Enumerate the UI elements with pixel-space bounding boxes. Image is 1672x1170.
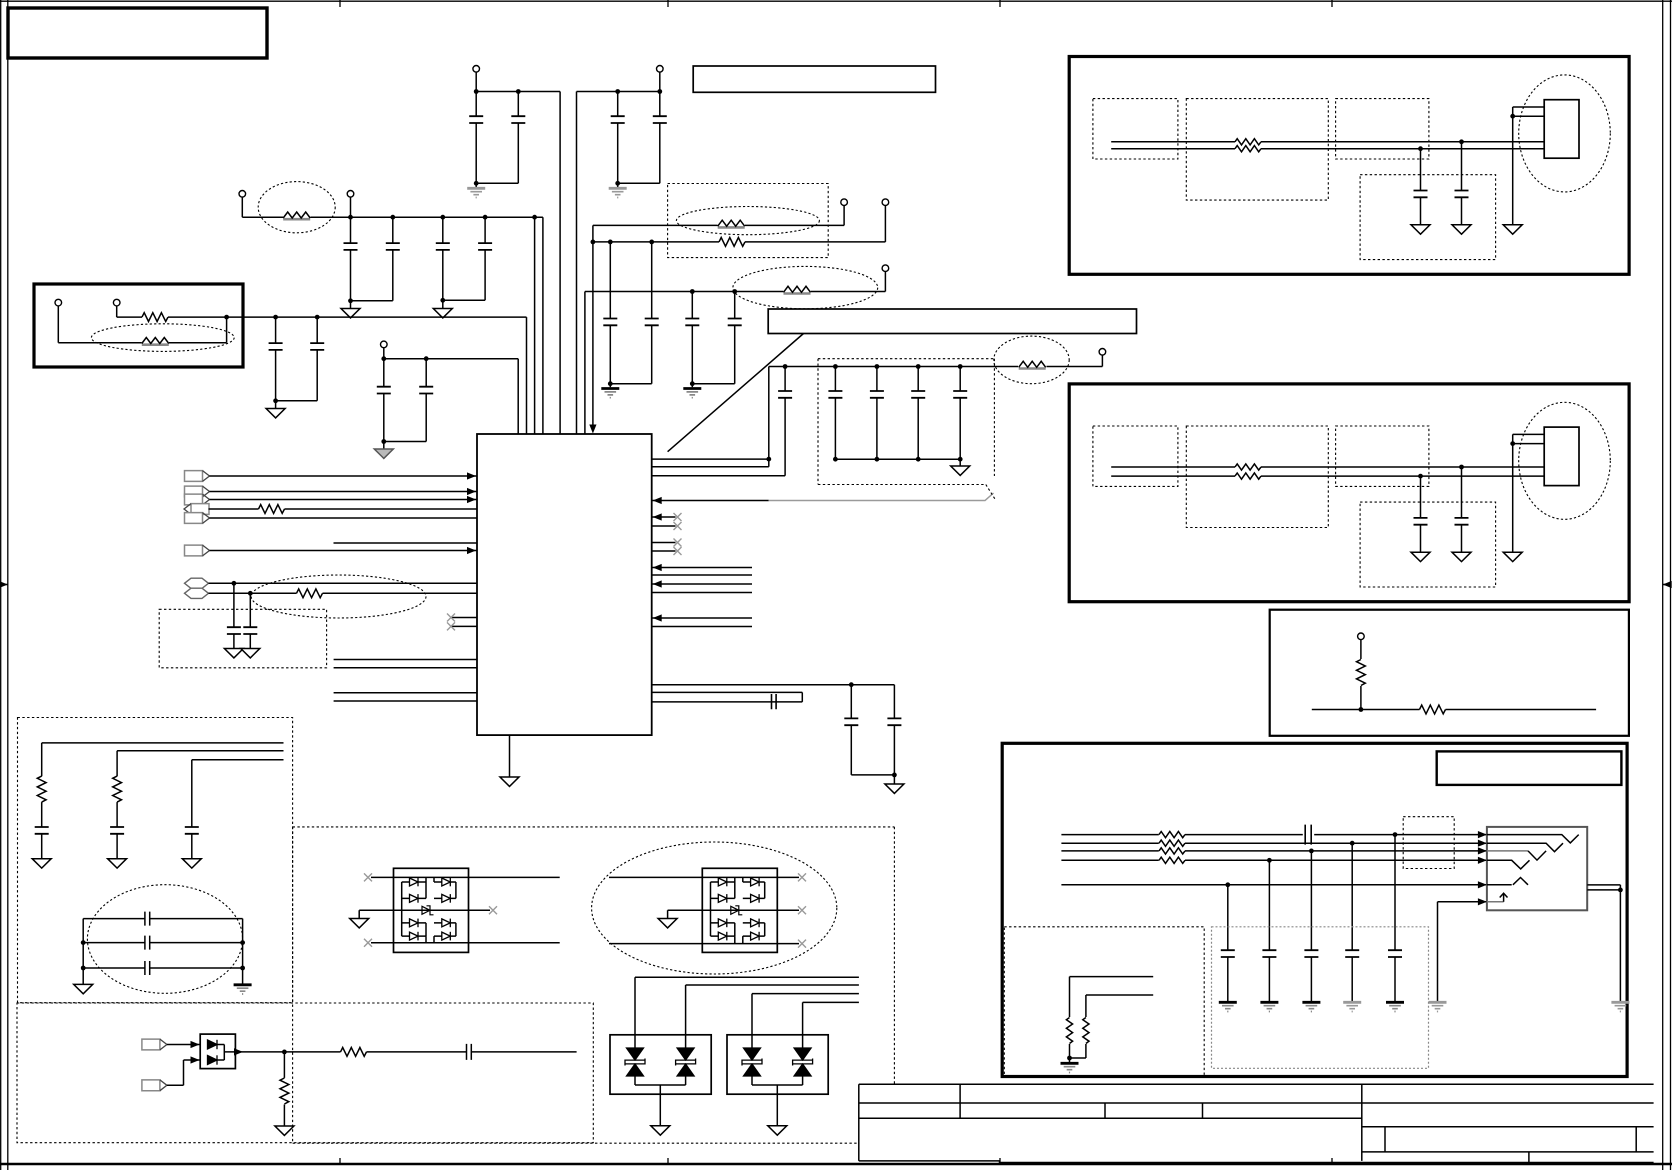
ground triangle B1g1 — [1452, 225, 1471, 234]
ground triangle bus left — [74, 984, 93, 993]
ground triangle C24C25 — [885, 775, 904, 794]
node C9 bottom — [273, 398, 278, 403]
TVS box Z1 — [610, 1035, 711, 1094]
ground earth C31 — [1260, 1002, 1278, 1011]
capacitor C17 — [227, 583, 241, 648]
terminal P6 — [841, 199, 848, 226]
capacitor C30 — [1304, 851, 1318, 1001]
terminal T2 — [113, 299, 120, 317]
capacitor C8 — [443, 217, 492, 300]
label box (net name) — [693, 66, 935, 92]
diff pair loop — [652, 692, 803, 702]
node divider — [1067, 1056, 1072, 1061]
shield box (bold) — [34, 284, 243, 367]
node row5 b — [424, 356, 429, 361]
wire row4 — [227, 316, 527, 318]
node row684 a — [849, 682, 854, 687]
node shield B2 — [1510, 441, 1515, 446]
U1 right rows 459/466 — [652, 367, 769, 467]
dashed box B2c — [1336, 426, 1429, 486]
ESD diode array D1 — [394, 868, 469, 952]
TVS Z2b — [793, 1048, 813, 1085]
node row366 c2 — [916, 364, 921, 369]
node B2 n2 — [1418, 474, 1423, 479]
dashed box B2d — [1360, 502, 1496, 587]
shield stub B2 — [1513, 434, 1545, 552]
ground triangle C17 — [224, 649, 243, 658]
output block (bold) — [1002, 743, 1627, 1076]
node B1 n2 — [1418, 146, 1423, 151]
node rail c3 — [958, 457, 963, 462]
node C25 bottom — [892, 773, 897, 778]
net flag F10 — [142, 1056, 200, 1090]
resistor pair B2 — [1235, 464, 1261, 470]
U1 right rows 567-592 — [652, 564, 752, 593]
connector ellipse B1 — [1519, 75, 1611, 192]
resistor R16 (vertical) — [280, 1052, 289, 1126]
bidir flag F7 — [185, 578, 478, 588]
capacitor C34 — [110, 827, 124, 859]
dashed box BR left — [1004, 927, 1204, 1077]
label box BR — [1437, 751, 1622, 785]
dashed box B2a — [1093, 426, 1178, 486]
node row3 b — [390, 215, 395, 220]
node row3 d — [483, 215, 488, 220]
resistor R5 (vertical) — [1357, 660, 1366, 710]
resistor R9 — [1159, 848, 1185, 854]
dashed box B2b — [1186, 426, 1328, 528]
net flag F2 — [185, 486, 478, 497]
ground earth C28 — [1386, 1002, 1404, 1011]
ferrite bead FB1 ellipse — [258, 182, 335, 233]
nc stub rows left — [447, 614, 477, 631]
node C13 bottom — [608, 381, 613, 386]
capacitor C16 — [692, 292, 741, 384]
TVS Z2 ground — [752, 1085, 803, 1135]
signal pair wires B1 — [1111, 142, 1544, 149]
node C1 bottom — [474, 181, 479, 186]
left bus — [82, 919, 84, 985]
node C30 top — [1309, 849, 1314, 854]
ESD ellipse 2 — [592, 842, 837, 974]
U1 right rows 618/626 — [652, 614, 752, 626]
U2 output pair — [1587, 885, 1620, 1001]
ground earth divider — [1061, 1058, 1079, 1073]
net flag F4 (left) + resistor R3 — [184, 504, 477, 515]
wire bank2 top rail — [577, 91, 660, 93]
diode pack D3 — [200, 1034, 235, 1069]
resistor R2 row — [593, 238, 886, 247]
wire rows 692/701 left — [334, 693, 477, 701]
ferrite bead FB5 — [1019, 361, 1046, 368]
capacitor C7 — [436, 217, 450, 300]
dashed box B1a — [1093, 99, 1178, 159]
wire + resistor R6 — [1312, 705, 1596, 714]
node R5 bottom — [1359, 707, 1364, 712]
ground earth bank2 — [609, 183, 627, 197]
node C5 bottom — [348, 298, 353, 303]
resistor R13 (vertical) — [37, 776, 46, 827]
capacitor C5 — [344, 217, 358, 301]
bus arrow into U1 — [589, 425, 596, 434]
wire rows 659/667 — [334, 660, 477, 668]
bus wires into U1 top — [518, 92, 593, 435]
node cap col a — [608, 240, 613, 245]
TVS box Z2 — [727, 1035, 828, 1094]
bus label box — [768, 309, 1136, 334]
U2 input arrows — [1478, 831, 1487, 838]
capacitor C31 — [1262, 860, 1276, 1001]
node row366 c3 — [958, 364, 963, 369]
U1 right nc stubs — [652, 513, 682, 555]
series capacitor C36 — [83, 912, 242, 926]
terminal P9 — [1099, 349, 1106, 356]
series capacitor C26 — [772, 694, 777, 709]
supply terminal P1 — [473, 66, 480, 92]
wire row5 — [384, 358, 518, 360]
capacitor C11 — [377, 359, 391, 442]
ground triangle C33 — [32, 859, 51, 868]
bidir flag F8 — [185, 588, 478, 598]
bypass dashed box right — [818, 359, 996, 500]
capacitor C23 — [953, 367, 967, 460]
ground triangle B2g2 — [1411, 552, 1430, 561]
ferrite bead FB4 row — [585, 272, 886, 294]
filter dashed box — [668, 184, 829, 258]
node C28 top — [1393, 832, 1398, 837]
node C3 top — [615, 89, 620, 94]
node R2 in — [591, 240, 596, 245]
right bus — [242, 919, 244, 984]
node row-b b — [732, 289, 737, 294]
TVS Z1b — [676, 1048, 696, 1085]
ground earth C32 — [1219, 1002, 1237, 1011]
capacitor C14 — [610, 242, 658, 384]
ground triangle C35 — [182, 859, 201, 868]
dashed box B1b — [1186, 99, 1328, 201]
left border zone marker — [0, 581, 8, 588]
resistor R8 — [1159, 840, 1185, 846]
resistor R12 (vertical) — [1070, 1018, 1090, 1059]
dashed box BR small — [1403, 817, 1454, 869]
capacitor C9 — [269, 317, 283, 401]
shield stub B1 — [1513, 107, 1545, 225]
array D1 mid wire + ground — [350, 906, 497, 928]
ground triangle C34 — [108, 859, 127, 868]
resistor R7 — [1159, 832, 1185, 838]
ferrite bead FB3 ellipse — [676, 207, 819, 235]
capacitor B1C2 — [1414, 149, 1428, 225]
dashed box B1c — [1336, 99, 1429, 159]
node B1 n1 — [1459, 139, 1464, 144]
capacitor C35 — [185, 827, 199, 859]
title box top-left — [8, 8, 267, 58]
ferrite bead FB2 ellipse — [91, 324, 234, 352]
interface block B2 (bold) — [1069, 384, 1629, 602]
branch wires — [42, 743, 284, 827]
resistor pair B1 — [1235, 139, 1261, 145]
wire bank1 top rail — [476, 91, 560, 93]
resistor R4 — [297, 589, 323, 598]
capacitor C15 — [685, 292, 699, 384]
capacitor C3 — [611, 92, 625, 184]
connector body B1 — [1544, 100, 1579, 159]
ground triangle rail — [951, 459, 970, 475]
capacitor C21 — [870, 367, 884, 460]
supply terminal P3 — [239, 191, 246, 218]
node row-b a — [690, 289, 695, 294]
node U2 out — [1618, 888, 1623, 893]
ground earth shield — [1429, 1002, 1447, 1011]
callout diagonal — [668, 334, 804, 452]
capacitor C10 — [276, 317, 325, 401]
ferrite bead FB4 ellipse — [733, 266, 878, 308]
dashed box B1d — [1360, 175, 1496, 260]
array D2 mid wire + ground — [658, 906, 806, 928]
diode pack out arrow — [234, 1048, 243, 1055]
shield drop wire — [1438, 902, 1487, 1001]
ferrite bead FB1 — [283, 212, 310, 219]
U1 bottom ground stub — [500, 735, 519, 786]
wire row 684.7 — [652, 684, 895, 686]
terminal P8 — [882, 265, 889, 272]
node C32 top — [1225, 882, 1230, 887]
node row4 b — [315, 315, 320, 320]
ferrite bead FB3 row — [593, 220, 844, 227]
right border zone marker — [1663, 581, 1672, 588]
node R16 tap — [282, 1050, 287, 1055]
node C3 bottom — [615, 181, 620, 186]
node F7 tap — [232, 581, 237, 586]
wire row3 — [242, 216, 543, 218]
ground triangle C5C6 — [341, 301, 360, 318]
ESD dashed box — [293, 827, 895, 1143]
pullup box — [1270, 610, 1629, 736]
node shield B1 — [1510, 114, 1515, 119]
node bank1 — [474, 89, 479, 94]
node 459 — [766, 457, 771, 462]
title block — [859, 1084, 1654, 1164]
capacitor C28 — [1388, 835, 1402, 1001]
ferrite bead FB2 — [58, 317, 226, 345]
resistor R11 (vertical) — [1066, 1018, 1072, 1059]
ground earth C15 — [683, 384, 701, 398]
caps ground rail — [835, 458, 960, 460]
capacitor C4 — [618, 92, 667, 184]
node row366 c1 — [875, 364, 880, 369]
connector ellipse B2 — [1519, 402, 1611, 519]
net flag F9 — [142, 1039, 200, 1050]
node bank2 — [657, 89, 662, 94]
capacitor B1C1 — [1455, 142, 1469, 225]
supply terminal P5 — [381, 341, 388, 359]
node rail c2 — [916, 457, 921, 462]
capacitor C32 — [1221, 885, 1235, 1001]
interface block B1 (bold) — [1069, 57, 1629, 275]
node row5 a — [381, 356, 386, 361]
ground earth bank1 — [467, 183, 485, 197]
net flag F1 — [185, 471, 478, 482]
caps dashed box — [159, 609, 326, 668]
resistor R10 — [1159, 857, 1185, 863]
capacitor C25 — [887, 685, 901, 775]
TVS Z2a — [742, 1048, 762, 1085]
input dashed box — [17, 1003, 593, 1143]
ground triangle B1g3 — [1503, 225, 1522, 234]
array D2 through wires + NC — [609, 873, 806, 947]
U2 triangle mark — [1487, 878, 1528, 885]
resistor R15 — [341, 1048, 367, 1057]
series capacitor C39 — [467, 1044, 472, 1060]
node C1 top — [516, 89, 521, 94]
feed wires to TVS — [635, 977, 859, 1048]
terminal T1 — [55, 299, 62, 342]
array D1 through wires + NC — [364, 873, 560, 946]
ground earth U2 out — [1611, 1002, 1629, 1011]
ground earth C30 — [1302, 1002, 1320, 1011]
node F8 tap — [248, 591, 253, 596]
ground triangle C18 — [241, 649, 260, 658]
capacitor C20 — [828, 367, 842, 460]
RC dashed box — [18, 718, 293, 1003]
node C7 bottom — [440, 298, 445, 303]
signal lines BR — [1061, 834, 1487, 836]
node C29 top — [1350, 841, 1355, 846]
divider wires — [1070, 977, 1154, 1017]
net flag F6 — [185, 545, 478, 556]
wire pin row 543 — [334, 542, 478, 544]
node C15 bottom — [690, 381, 695, 386]
node rail c0 — [833, 457, 838, 462]
node row3 a — [348, 215, 353, 220]
ground triangle B1g2 — [1411, 225, 1430, 234]
node C31 top — [1267, 858, 1272, 863]
ferrite bead FB5 ellipse — [994, 336, 1069, 384]
terminal P7 — [882, 199, 889, 242]
IC U1 — [477, 434, 652, 735]
line5 BR — [1061, 884, 1487, 886]
ground triangle B2g1 — [1452, 552, 1471, 561]
series capacitor C27 — [1305, 825, 1311, 845]
capacitor C22 — [911, 367, 925, 460]
terminal P10 — [1358, 633, 1365, 659]
ground triangle R16 — [275, 1126, 294, 1135]
capacitor C24 — [844, 685, 894, 775]
series capacitor C37 — [83, 936, 242, 950]
capacitor C13 — [603, 242, 617, 384]
supply terminal P4 — [347, 191, 354, 218]
node row3 to bus — [532, 215, 537, 220]
capacitor C29 — [1345, 843, 1359, 1001]
capacitor C18 — [243, 593, 257, 648]
net flag F3 — [185, 494, 478, 505]
coupling ellipse — [87, 885, 242, 994]
U1 right wire row 500 (gray) — [652, 500, 769, 502]
ground earth bus right — [234, 985, 252, 994]
capacitor C1 — [469, 92, 483, 184]
ESD diode array D2 — [702, 868, 777, 952]
TVS Z1a — [625, 1048, 645, 1085]
connector body B2 — [1544, 427, 1579, 486]
node cap col b — [649, 240, 654, 245]
series capacitor C38 — [83, 961, 242, 975]
wire main bottom-left — [235, 1051, 576, 1053]
resistor R1 — [117, 313, 227, 322]
resistor R14 (vertical) — [113, 776, 122, 827]
node B2 n1 — [1459, 465, 1464, 470]
capacitor C33 — [35, 827, 49, 859]
U1 right row 475.7 — [652, 475, 785, 477]
node row366 c0 — [833, 364, 838, 369]
ground triangle C9C10 — [266, 401, 285, 418]
node C11 bottom — [381, 439, 386, 444]
supply terminal P2 — [657, 66, 664, 92]
ground triangle B2g3 — [1503, 552, 1522, 561]
ESD/mux box U2 — [1487, 827, 1587, 910]
capacitor C2 — [476, 92, 525, 184]
node row3 c — [440, 215, 445, 220]
signal pair wires B2 — [1111, 467, 1544, 476]
net flag F5 — [185, 513, 478, 524]
ground earth C29 — [1343, 1002, 1361, 1011]
wire row 366 — [769, 355, 1103, 366]
node row4 out — [224, 315, 229, 320]
capacitor C6 — [351, 217, 400, 301]
node rail c1 — [875, 457, 880, 462]
capacitor C19 — [778, 367, 792, 476]
dotted caps box BR — [1212, 927, 1429, 1069]
capacitor B2C1 — [1455, 467, 1469, 552]
capacitor B2C2 — [1414, 476, 1428, 552]
TVS Z1 ground — [635, 1085, 686, 1135]
U2 internal check marks — [1487, 835, 1579, 843]
capacitor C12 — [384, 359, 433, 442]
U2 ref arrow mark — [1487, 901, 1504, 903]
diff pair ellipse — [251, 575, 426, 618]
ground earth C13 — [601, 384, 619, 398]
ground triangle C7C8 — [433, 300, 452, 318]
ground triangle C11C12 (gray) — [374, 442, 393, 459]
node C19 top — [783, 364, 788, 369]
node row4 a — [273, 315, 278, 320]
